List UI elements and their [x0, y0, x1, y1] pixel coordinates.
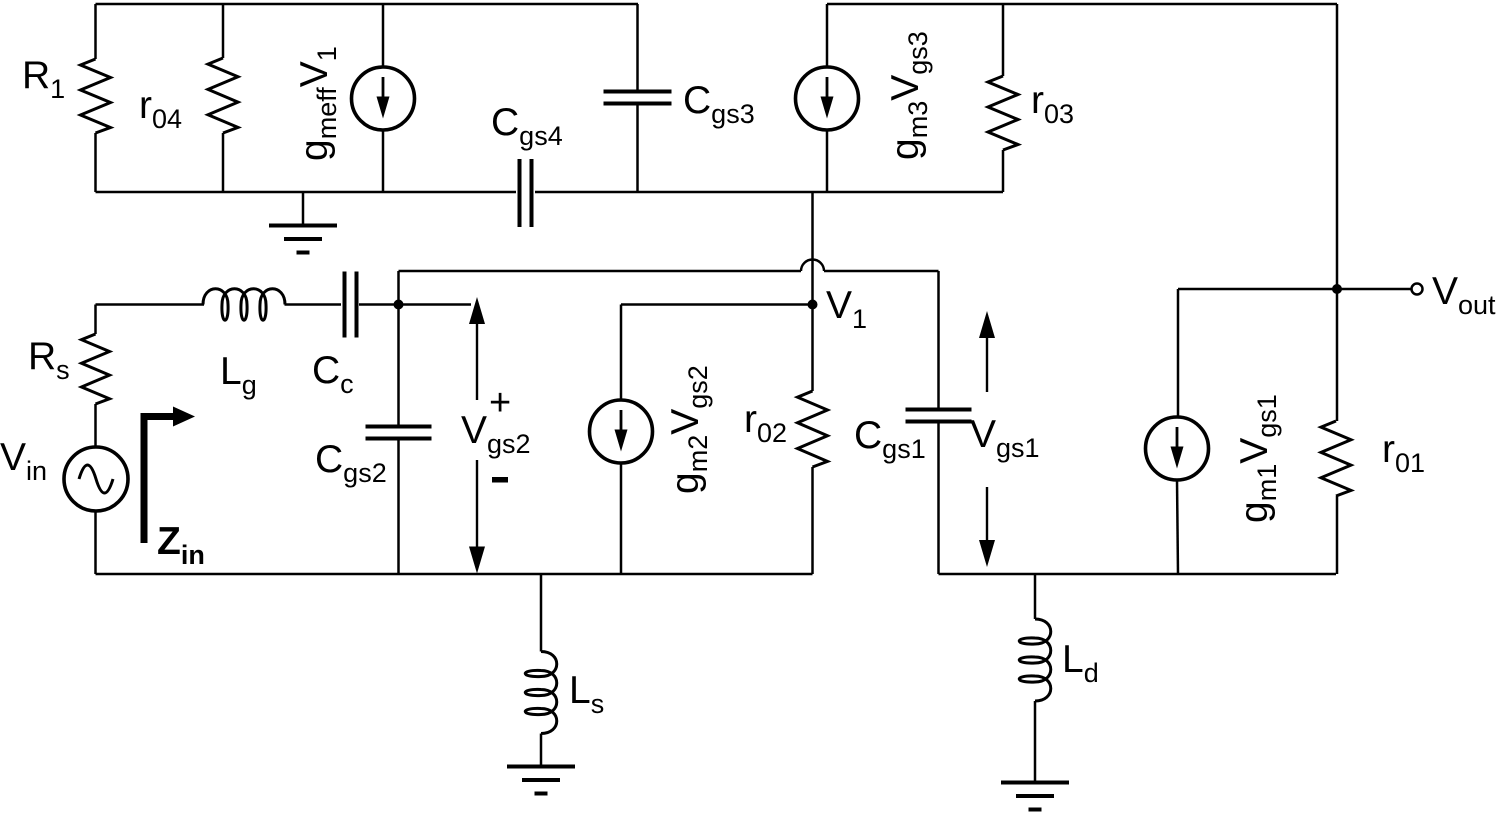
svg-text:+: + [489, 382, 511, 424]
